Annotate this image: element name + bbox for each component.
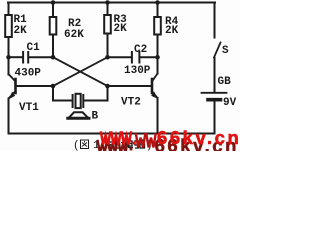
VT1 emitter arrow <box>9 92 16 100</box>
wire left rail upper <box>8 3 10 16</box>
svg-text:2K: 2K <box>165 25 179 37</box>
capacitor C1 <box>9 52 54 63</box>
piezo horn (trapezoid) <box>69 112 89 118</box>
node top R2 <box>51 0 56 5</box>
svg-text:VT1: VT1 <box>19 102 39 114</box>
capacitor C2 <box>108 52 158 63</box>
svg-text:66kv.cn: 66kv.cn <box>157 127 240 148</box>
svg-text:2K: 2K <box>14 25 28 37</box>
node VT2 base <box>105 84 110 89</box>
battery GB long plate <box>202 92 227 94</box>
watermark dark copy (lower offset) <box>98 140 128 153</box>
svg-text:VT2: VT2 <box>121 97 141 109</box>
wire bottom rail <box>9 133 215 135</box>
wire R1 to collector node <box>8 37 10 75</box>
transistor VT2 <box>152 57 158 97</box>
transistor VT1 <box>9 74 16 98</box>
node C1 right / R2 <box>51 55 56 60</box>
svg-text:2K: 2K <box>114 23 128 35</box>
node VT1 collector / C1 <box>6 55 11 60</box>
resistor R3 <box>104 15 111 34</box>
wire piezo right drop <box>84 100 107 102</box>
node C2 right / R4 <box>155 55 160 60</box>
wire cross-coupling C1 node to VT2 base <box>53 57 108 86</box>
wire R2 branch upper <box>52 3 54 18</box>
wire R3 branch upper <box>107 3 109 16</box>
hanzi 路 <box>135 140 145 148</box>
wire piezo left drop <box>52 86 54 101</box>
switch S blade <box>214 43 221 58</box>
wire R3 to C2 node <box>107 34 109 58</box>
svg-text:(: ( <box>73 140 80 151</box>
hanzi 图 <box>81 140 89 149</box>
node VT1 base <box>51 84 56 89</box>
wire VT2 emitter to bottom rail <box>157 98 159 134</box>
svg-text:62K: 62K <box>64 29 84 41</box>
piezo element B plates <box>72 95 74 107</box>
wire switch to battery <box>214 58 216 92</box>
wire VT1 emitter to bottom rail <box>8 99 10 134</box>
wire R4 branch upper <box>157 3 159 18</box>
watermark www.66kv.cn <box>101 131 131 144</box>
node C2 left / R3 <box>105 55 110 60</box>
VT2 emitter arrow <box>151 92 157 99</box>
watermark mid red extra <box>136 133 156 147</box>
node top R3 <box>105 0 110 5</box>
junction dots <box>6 0 160 99</box>
node top R4 <box>155 0 160 5</box>
hanzi 射 <box>116 140 125 148</box>
wire R2 to C1 node <box>52 35 54 58</box>
svg-text:9V: 9V <box>223 97 237 109</box>
hanzi 发 <box>105 140 113 149</box>
svg-text:430P: 430P <box>15 68 42 80</box>
svg-text:GB: GB <box>218 76 232 88</box>
hanzi 电 <box>126 140 134 148</box>
svg-text:C1: C1 <box>27 42 41 54</box>
wire VT2 base <box>108 85 153 87</box>
svg-text:B: B <box>92 111 99 123</box>
caption (图 1 发射电路) <box>73 140 153 153</box>
resistor R2 <box>50 17 57 35</box>
svg-text:S: S <box>222 45 229 57</box>
wire R4 to C2 right node <box>157 35 159 58</box>
wire cross-coupling C2 node to VT1 base <box>53 57 108 86</box>
battery GB short plate <box>208 98 221 102</box>
svg-text:C2: C2 <box>134 44 147 56</box>
wire battery to bottom rail <box>214 102 216 134</box>
resistor R4 <box>154 17 161 35</box>
svg-text:130P: 130P <box>124 65 151 77</box>
wire top rail +V <box>8 2 215 4</box>
wire VT1 base <box>16 85 54 87</box>
resistor R1 <box>5 15 12 37</box>
wire right rail to switch <box>214 3 216 38</box>
